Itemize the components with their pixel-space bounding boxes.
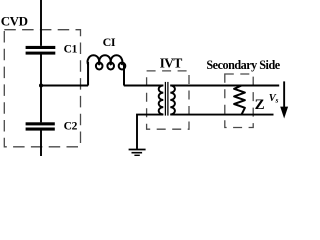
svg-text:C1: C1 xyxy=(64,44,78,56)
svg-text:IVT: IVT xyxy=(160,55,183,70)
svg-text:Vs: Vs xyxy=(269,93,279,105)
svg-text:Z: Z xyxy=(255,97,265,113)
svg-text:Secondary Side: Secondary Side xyxy=(206,58,280,72)
svg-text:CI: CI xyxy=(103,35,116,49)
svg-text:C2: C2 xyxy=(64,120,78,132)
svg-text:CVD: CVD xyxy=(1,13,28,28)
